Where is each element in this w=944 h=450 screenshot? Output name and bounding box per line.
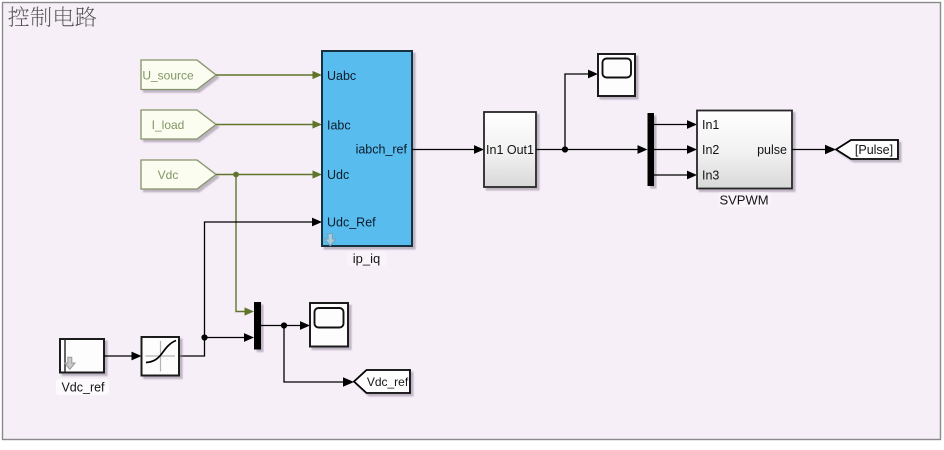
- source block Vdc_ref: [60, 339, 104, 373]
- svg-text:Iabc: Iabc: [327, 119, 351, 133]
- Vdc_ref badge arrow: [65, 357, 75, 369]
- svg-text:I_load: I_load: [152, 118, 185, 132]
- scope2 screen: [315, 308, 344, 328]
- svg-text:In1: In1: [702, 118, 719, 132]
- rate limiter block: [142, 337, 180, 376]
- wire branch to mux lower input: [205, 337, 246, 339]
- scope1: [598, 54, 635, 96]
- svg-text:Udc: Udc: [327, 168, 349, 182]
- wire Vdc_ref to rate limiter: [104, 355, 133, 357]
- Vdc_ref inner left bar: [64, 339, 66, 373]
- scope2: [310, 303, 348, 347]
- wire branch up to scope1: [565, 74, 590, 150]
- junction on mux output: [281, 322, 287, 328]
- demux: [648, 113, 655, 186]
- rate limiter curve: [146, 341, 176, 363]
- goto tag Vdc_ref: [354, 370, 410, 393]
- subsystem In1 Out1: [484, 112, 536, 187]
- goto tag Pulse: [836, 140, 898, 159]
- wire Vdc branch down to mux: [236, 175, 246, 312]
- wire Vdc to Udc: [216, 174, 314, 176]
- wire demux to In1: [654, 124, 689, 126]
- label Vdc_ref: [56, 379, 109, 395]
- wire branch to goto Vdc_ref: [284, 326, 346, 383]
- svg-text:pulse: pulse: [757, 143, 787, 157]
- title 控制电路: [8, 6, 96, 27]
- mux: [254, 302, 261, 350]
- svg-text:Vdc_ref: Vdc_ref: [61, 381, 105, 395]
- wire iabch_ref to In1 Out1: [412, 149, 476, 151]
- svg-text:In1 Out1: In1 Out1: [486, 143, 534, 157]
- svg-text:[Pulse]: [Pulse]: [855, 143, 893, 157]
- svg-text:Vdc_ref: Vdc_ref: [367, 375, 409, 389]
- label ip_iq: [347, 251, 387, 266]
- svg-text:SVPWM: SVPWM: [719, 193, 768, 208]
- svg-text:In2: In2: [702, 143, 719, 157]
- scope1 screen: [603, 59, 632, 78]
- wire pulse to goto Pulse: [792, 149, 826, 151]
- wire U_source to Uabc: [216, 74, 314, 76]
- junction on main wire: [562, 146, 568, 152]
- junction on Udc_Ref wire: [201, 334, 207, 340]
- subsystem ip_iq: [322, 51, 412, 246]
- rate limiter axes: [146, 341, 176, 372]
- svg-text:iabch_ref: iabch_ref: [356, 143, 408, 157]
- wire In1 Out1 to demux: [536, 149, 639, 151]
- from tag U_source: [141, 60, 216, 90]
- svg-text:U_source: U_source: [142, 69, 194, 83]
- ip_iq open-subsystem badge arrow: [325, 234, 336, 246]
- svg-text:In3: In3: [702, 169, 719, 183]
- svg-text:Vdc: Vdc: [158, 168, 179, 182]
- from tag Vdc: [141, 160, 216, 189]
- svg-text:Uabc: Uabc: [327, 69, 356, 83]
- wire mux to scope2: [261, 325, 302, 327]
- label SVPWM: [718, 192, 771, 207]
- wire demux to In3: [654, 174, 689, 176]
- junction on Vdc wire: [233, 172, 239, 178]
- svg-text:ip_iq: ip_iq: [353, 251, 380, 266]
- wire demux to In2: [654, 149, 689, 151]
- wire Udc_Ref input: [179, 222, 314, 356]
- subsystem SVPWM: [697, 111, 792, 189]
- svg-text:Udc_Ref: Udc_Ref: [327, 216, 376, 230]
- from tag I_load: [141, 110, 216, 139]
- wire I_load to Iabc: [216, 124, 314, 126]
